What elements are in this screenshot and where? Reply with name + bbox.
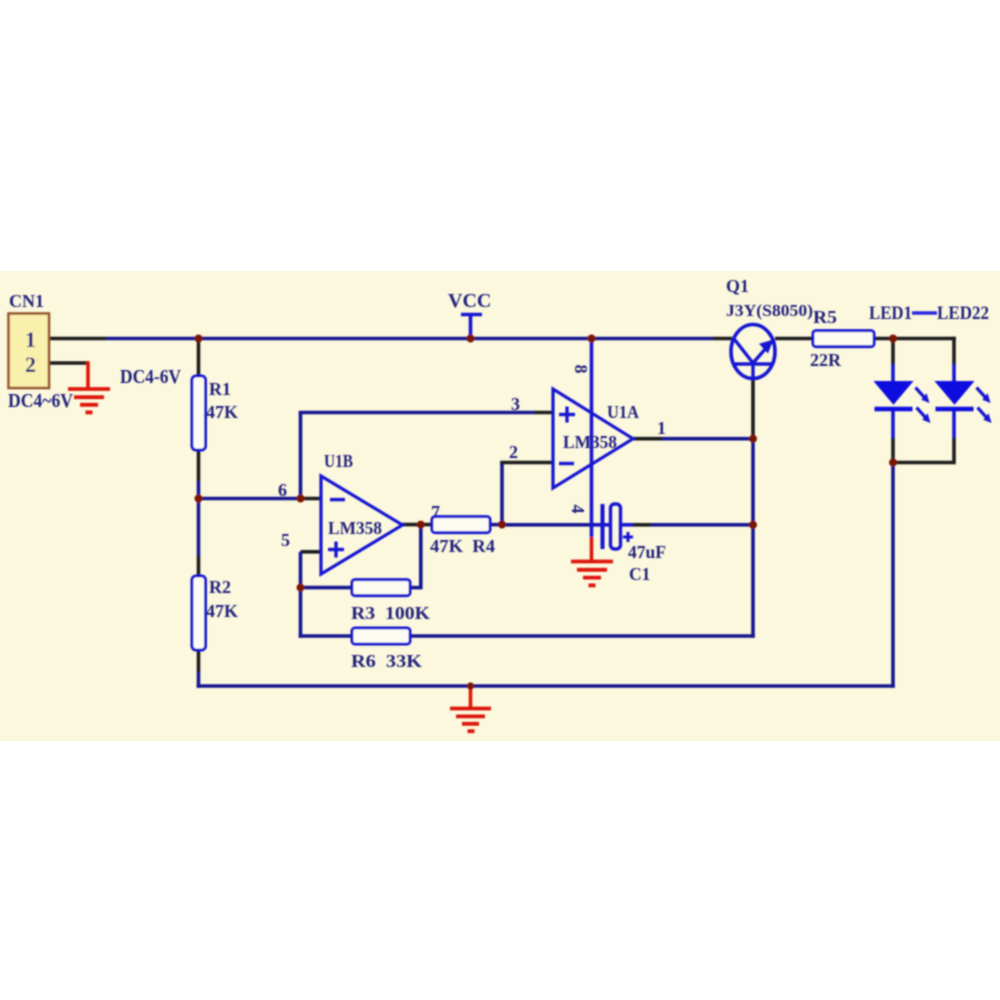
wire: R6 right long run	[409, 634, 755, 638]
svg-text:R6 33K: R6 33K	[351, 651, 422, 671]
wire: pin2 horizontal black	[500, 461, 553, 465]
svg-text:LM358: LM358	[328, 518, 382, 538]
svg-text:Q1: Q1	[726, 276, 749, 296]
VCC symbol	[461, 315, 482, 339]
wire: LED1 cathode pin blue	[891, 410, 895, 438]
wire: black segment after C1	[633, 523, 651, 527]
wire: rail black stub into Q1 collector	[713, 337, 732, 341]
ground bottom centre (red)	[450, 709, 491, 732]
transistor Q1	[731, 325, 775, 379]
wire: pin5 black stub	[301, 550, 322, 554]
svg-text:J3Y(S8050): J3Y(S8050)	[726, 301, 813, 320]
svg-text:2: 2	[509, 442, 518, 462]
wire: R5 right to corner (black)	[874, 337, 956, 341]
wire: CN1 pin1 black stub	[49, 337, 106, 341]
wire: C1 right pin stub (blue)	[620, 523, 633, 527]
svg-text:1: 1	[657, 418, 666, 438]
node: R5 / LED1	[889, 335, 897, 343]
svg-text:R5: R5	[813, 307, 837, 327]
wire: pin2 riser	[500, 463, 504, 527]
node: divider / pin6	[195, 495, 203, 503]
wire: LED2 cathode pin blue	[952, 410, 956, 438]
wire: corner down to LED2 anode (black)	[952, 337, 956, 364]
wire: R3 right to riser	[409, 586, 421, 590]
LED1	[875, 382, 913, 405]
svg-text:22R: 22R	[810, 350, 842, 370]
wire: pin3 black stub	[534, 411, 553, 415]
wire: U1B output black stub	[402, 523, 432, 527]
node: pin1 / base column	[749, 435, 757, 443]
node: pin5 / R3	[297, 584, 305, 592]
resistor R3	[352, 580, 410, 596]
LED1 light arrows	[916, 388, 931, 424]
node: bottom rail / ground	[467, 682, 474, 689]
svg-text:R3 100K: R3 100K	[351, 603, 430, 623]
connector CN1	[9, 314, 50, 389]
svg-text:C1: C1	[629, 564, 650, 584]
svg-text:LM358: LM358	[563, 432, 617, 452]
svg-text:VCC: VCC	[448, 290, 491, 312]
wire: vertical up to pin3 level	[299, 413, 303, 499]
Q1 emitter arrow head	[759, 340, 774, 354]
svg-text:47K: 47K	[206, 601, 238, 621]
wire: C1 to Q1 base column	[651, 523, 753, 527]
wire: LED1 anode black	[891, 341, 895, 364]
pin8/pin4 supply line through U1A	[590, 340, 594, 537]
wire: C1 left pin stub (blue)	[595, 523, 612, 527]
wire: CN1 pin2 black stub	[49, 361, 88, 365]
svg-text:6: 6	[278, 480, 287, 500]
wire: LED2 anode pin blue	[952, 364, 956, 382]
wire: R3 left stub	[299, 586, 352, 590]
wire: R6 left stub	[299, 634, 352, 638]
svg-text:47K R4: 47K R4	[430, 536, 495, 556]
wire: base column down to R6 level	[751, 439, 755, 638]
node: pin6 / pin3 riser	[297, 495, 305, 503]
wire: pin4 red drop to ground	[590, 537, 594, 561]
wire: LED2 cathode black corner to junction	[893, 438, 954, 463]
wire: R1 bottom to R2 top	[197, 450, 201, 481]
wire: pin5 vertical down	[299, 552, 303, 638]
wire: R4 right to node	[490, 523, 502, 527]
wire: red drop bottom ground	[469, 686, 473, 708]
node: LED cathodes	[889, 459, 897, 467]
wire: R4 node to C1 left plate	[502, 523, 595, 527]
wire: LED junction down to bottom rail	[891, 463, 895, 688]
svg-text:U1A: U1A	[607, 402, 639, 422]
C1 plus sign	[623, 532, 633, 542]
wire: pin3 horizontal	[299, 411, 534, 415]
wire: LED1 anode pin blue	[891, 364, 895, 382]
resistor R2	[192, 576, 206, 650]
wire: pin6 horizontal from divider	[199, 497, 301, 501]
wire: bottom ground rail	[197, 684, 895, 688]
op-amp U1A	[553, 389, 633, 488]
svg-text:47K: 47K	[206, 402, 238, 422]
svg-text:5: 5	[281, 530, 290, 550]
wire: riser R3 to pin7 node	[419, 525, 423, 590]
ground near CN1 (red)	[68, 389, 110, 412]
svg-text:R2: R2	[209, 577, 231, 597]
wire: Q1 emitter to R5 black	[775, 337, 813, 341]
svg-text:47uF: 47uF	[628, 542, 666, 562]
svg-text:1: 1	[25, 327, 36, 352]
node: rail / R1	[195, 335, 203, 343]
svg-text:CN1: CN1	[9, 291, 44, 311]
svg-text:R1: R1	[209, 379, 231, 399]
wire: main VCC rail	[106, 337, 713, 341]
wire: LED1 cathode black to junction	[891, 438, 895, 463]
LED2	[936, 382, 974, 405]
resistor R1	[192, 376, 206, 450]
wire: U1A pin1 black stub	[632, 437, 662, 441]
node: C1 / base column	[749, 521, 757, 529]
resistor R6	[352, 628, 410, 644]
svg-text:LED1: LED1	[869, 304, 912, 324]
svg-text:3: 3	[511, 394, 520, 414]
op-amp U1B	[321, 476, 403, 574]
svg-text:DC4-6V: DC4-6V	[120, 366, 181, 388]
wire: R2 bottom to bottom rail	[197, 650, 201, 672]
LED2 light arrows	[977, 388, 992, 424]
svg-text:U1B: U1B	[324, 451, 353, 471]
ground under C1 (red)	[571, 562, 613, 586]
resistor R4	[432, 517, 490, 533]
wire: red drop from pin2	[86, 361, 90, 388]
svg-text:2: 2	[25, 352, 36, 377]
wire: pin1 to Q1 base column	[662, 437, 753, 441]
node: rail / pin8	[588, 335, 596, 343]
cream schematic background	[0, 271, 1000, 741]
wire: Q1 base down (black)	[751, 378, 755, 439]
wire: rail dot down to R1 (black)	[197, 339, 201, 377]
node: rail / VCC	[467, 335, 475, 343]
svg-text:LED22: LED22	[937, 304, 989, 324]
node: R4 right / pin2	[498, 521, 506, 529]
capacitor C1	[603, 504, 621, 549]
svg-text:8: 8	[571, 365, 591, 374]
svg-text:4: 4	[568, 505, 588, 514]
svg-text:DC4~6V: DC4~6V	[8, 390, 73, 412]
wire: pin6 black stub to U1B	[301, 497, 322, 501]
resistor R5	[813, 331, 874, 347]
node: pin7 / R4 left	[417, 521, 425, 529]
